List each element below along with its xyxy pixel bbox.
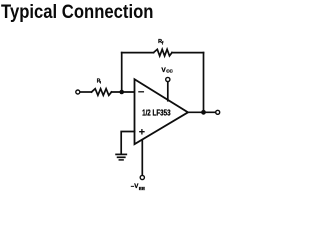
title: Typical Connection [1, 2, 153, 24]
wire -Vee to op-amp [141, 140, 143, 175]
op-amp minus pin mark [139, 91, 144, 93]
wire noninverting input to ground [121, 132, 134, 154]
op-amp U1 triangle [135, 79, 189, 144]
resistor Rf [154, 49, 173, 56]
resistor Ri [92, 89, 112, 96]
wire feedback right vertical [203, 53, 205, 113]
output terminal circle [216, 110, 220, 114]
wire top rail left [122, 52, 154, 54]
-Vee terminal circle [140, 175, 144, 179]
svg-text:EE: EE [139, 186, 146, 192]
wire top rail right [172, 52, 204, 54]
wire Ri to op-amp inverting input [112, 91, 134, 93]
Vcc terminal circle [166, 77, 170, 81]
svg-text:1/2 LF353: 1/2 LF353 [142, 108, 170, 118]
wire input to Ri [80, 91, 91, 93]
wire feedback left vertical [121, 53, 123, 92]
wire Vcc to op-amp [167, 82, 169, 101]
input terminal circle [76, 90, 80, 94]
svg-text:CC: CC [166, 69, 173, 74]
node: inverting input junction [119, 90, 124, 95]
svg-text:f: f [162, 41, 164, 46]
ground [116, 153, 126, 155]
wire output [188, 111, 215, 113]
svg-text:i: i [100, 80, 101, 85]
node: output junction [201, 110, 206, 115]
op-amp plus pin mark [140, 130, 144, 134]
